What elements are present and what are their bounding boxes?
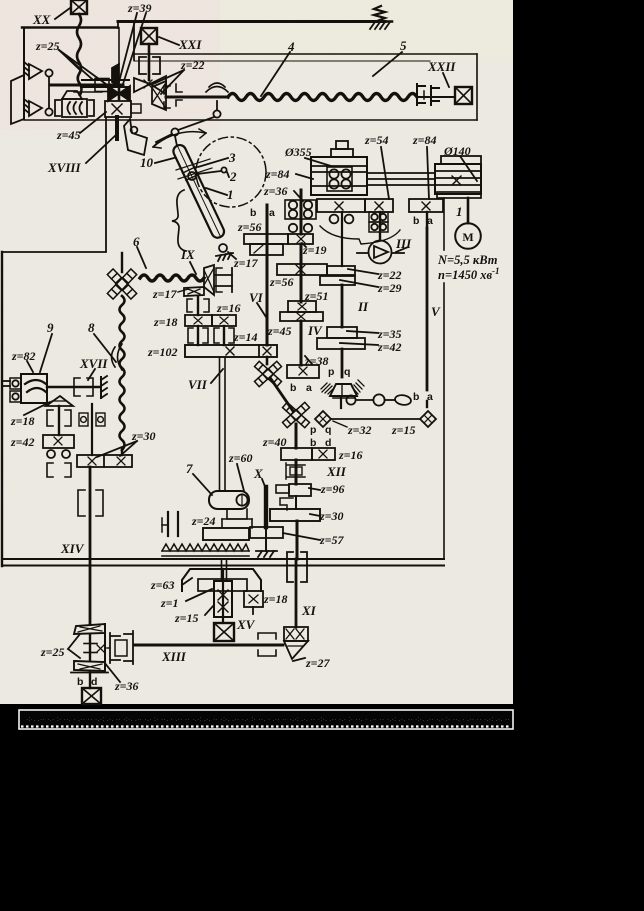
svg-text:b: b	[250, 207, 256, 219]
svg-text:z=15: z=15	[391, 423, 416, 437]
svg-text:XV: XV	[236, 617, 256, 632]
svg-text:z=96: z=96	[320, 482, 345, 496]
svg-text:z=57: z=57	[319, 533, 345, 547]
svg-text:z=1: z=1	[160, 596, 179, 610]
svg-text:z=16: z=16	[338, 448, 363, 462]
svg-text:M: M	[462, 230, 473, 244]
svg-text:z=63: z=63	[150, 578, 175, 592]
svg-text:z=30: z=30	[131, 429, 156, 443]
svg-text:z=18: z=18	[10, 414, 35, 428]
svg-text:p: p	[328, 366, 334, 378]
svg-text:z=51: z=51	[304, 289, 329, 303]
svg-text:d: d	[325, 437, 331, 449]
svg-text:z=54: z=54	[364, 133, 389, 147]
svg-text:4: 4	[287, 39, 295, 54]
svg-text:z=56: z=56	[237, 220, 262, 234]
svg-text:XX: XX	[32, 12, 51, 27]
svg-text:1: 1	[227, 187, 234, 202]
svg-text:XXII: XXII	[427, 59, 456, 74]
svg-text:a: a	[306, 382, 312, 394]
svg-text:10: 10	[140, 155, 154, 170]
svg-text:Ø140: Ø140	[443, 144, 471, 158]
svg-text:z=35: z=35	[377, 327, 402, 341]
svg-text:7: 7	[186, 461, 193, 476]
svg-text:1: 1	[456, 204, 463, 219]
svg-text:z=38: z=38	[304, 354, 329, 368]
svg-text:z=39: z=39	[127, 1, 152, 15]
svg-text:z=45: z=45	[267, 324, 292, 338]
svg-text:VI: VI	[249, 290, 264, 305]
svg-text:z=36: z=36	[263, 184, 288, 198]
svg-text:XXI: XXI	[178, 37, 202, 52]
svg-text:z=27: z=27	[305, 656, 331, 670]
svg-text:III: III	[395, 236, 412, 251]
svg-text:z=36: z=36	[114, 679, 139, 693]
svg-text:z=24: z=24	[191, 514, 216, 528]
svg-text:Ø355: Ø355	[284, 145, 312, 159]
svg-text:d: d	[91, 676, 97, 688]
svg-text:z=56: z=56	[269, 275, 294, 289]
svg-text:XIV: XIV	[60, 541, 85, 556]
svg-text:z=14: z=14	[233, 330, 258, 344]
svg-text:b: b	[290, 382, 296, 394]
svg-text:9: 9	[47, 320, 54, 335]
svg-text:IX: IX	[180, 247, 195, 262]
svg-text:b: b	[310, 437, 316, 449]
svg-text:V: V	[431, 304, 441, 319]
svg-text:a: a	[269, 207, 275, 219]
svg-text:N=5,5 кВт: N=5,5 кВт	[437, 253, 498, 267]
svg-text:z=45: z=45	[56, 128, 81, 142]
svg-text:a: a	[427, 215, 433, 227]
svg-text:b: b	[77, 676, 83, 688]
svg-text:n=1450 хв-1: n=1450 хв-1	[438, 266, 500, 282]
svg-text:IV: IV	[307, 323, 323, 338]
svg-text:z=17: z=17	[233, 256, 259, 270]
svg-text:z=42: z=42	[377, 340, 402, 354]
svg-text:z=40: z=40	[262, 435, 287, 449]
svg-text:p: p	[310, 424, 316, 436]
svg-text:8: 8	[88, 320, 95, 335]
svg-text:z=17: z=17	[152, 287, 178, 301]
svg-text:5: 5	[400, 38, 407, 53]
svg-text:z=16: z=16	[216, 301, 241, 315]
svg-text:a: a	[427, 391, 433, 403]
svg-text:z=84: z=84	[265, 167, 290, 181]
svg-text:b: b	[413, 391, 419, 403]
svg-text:VII: VII	[188, 377, 208, 392]
svg-text:b: b	[413, 215, 419, 227]
svg-text:z=30: z=30	[319, 509, 344, 523]
svg-text:II: II	[357, 299, 369, 314]
svg-text:X: X	[253, 466, 263, 481]
svg-text:q: q	[344, 366, 350, 378]
svg-text:z=84: z=84	[412, 133, 437, 147]
svg-text:z=19: z=19	[302, 243, 327, 257]
svg-text:z=25: z=25	[35, 39, 60, 53]
svg-text:6: 6	[133, 234, 140, 249]
svg-text:XII: XII	[326, 464, 347, 479]
svg-text:XIII: XIII	[161, 649, 187, 664]
svg-text:z=18: z=18	[153, 315, 178, 329]
svg-text:2: 2	[229, 169, 237, 184]
svg-text:q: q	[325, 424, 331, 436]
svg-text:z=25: z=25	[40, 645, 65, 659]
svg-text:z=22: z=22	[377, 268, 402, 282]
svg-text:z=82: z=82	[11, 349, 36, 363]
svg-text:z=32: z=32	[347, 423, 372, 437]
svg-text:3: 3	[228, 150, 236, 165]
svg-text:z=102: z=102	[147, 345, 178, 359]
svg-text:z=18: z=18	[263, 592, 288, 606]
svg-text:XVII: XVII	[79, 356, 108, 371]
svg-text:z=29: z=29	[377, 281, 402, 295]
svg-text:z=60: z=60	[228, 451, 253, 465]
svg-text:z=15: z=15	[174, 611, 199, 625]
svg-text:z=22: z=22	[180, 58, 205, 72]
svg-text:XVIII: XVIII	[47, 160, 81, 175]
svg-text:z=42: z=42	[10, 435, 35, 449]
svg-text:XI: XI	[301, 603, 317, 618]
